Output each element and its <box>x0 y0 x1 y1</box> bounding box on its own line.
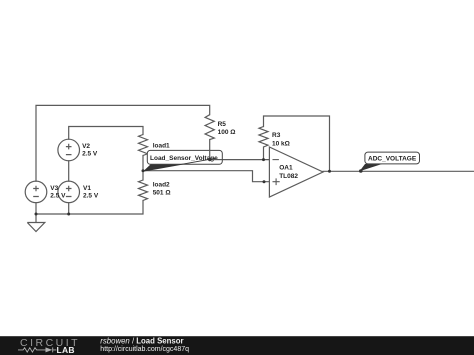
resistor R5 <box>205 115 214 140</box>
wire node to op-amp non-inverting input <box>143 171 280 182</box>
resistor load2 <box>139 180 148 201</box>
wire top rail from V3 top to R5 top <box>36 105 210 181</box>
wire load1 bottom to node <box>142 156 144 171</box>
wire R3 feedback loop to output <box>264 116 330 171</box>
voltage source V1 <box>58 181 80 203</box>
svg-text:R5: R5 <box>218 121 227 128</box>
svg-text:rsbowen / Load Sensor: rsbowen / Load Sensor <box>100 336 183 345</box>
svg-text:http://circuitlab.com/cgc487q: http://circuitlab.com/cgc487q <box>100 346 189 353</box>
svg-text:V1: V1 <box>83 185 91 192</box>
junction dot non-inverting input <box>263 180 266 183</box>
label V1 <box>83 185 99 199</box>
junction dot V3 bottom <box>35 213 38 216</box>
junction dot R3 bottom at inverting input <box>262 158 265 161</box>
label load1 <box>153 143 170 150</box>
node flag ADC_VOLTAGE <box>359 152 420 173</box>
wire V1 bottom to ground rail <box>68 203 70 214</box>
svg-text:LAB: LAB <box>57 345 75 355</box>
wire op-amp output to right edge <box>323 170 474 172</box>
junction dot output feedback <box>328 170 331 173</box>
svg-text:10 kΩ: 10 kΩ <box>272 141 290 148</box>
label R3 <box>272 132 290 148</box>
svg-text:V3: V3 <box>50 185 58 192</box>
label R5 <box>218 121 236 136</box>
voltage source V3 <box>25 181 47 203</box>
label OA1 TL082 <box>279 165 298 181</box>
svg-text:100 Ω: 100 Ω <box>218 129 236 136</box>
op-amp OA1 <box>269 147 323 197</box>
wire V2 top to load1 top <box>69 127 143 140</box>
svg-text:2.5 V: 2.5 V <box>83 192 99 199</box>
resistor R3 <box>259 127 268 148</box>
footer bar <box>0 336 474 355</box>
svg-text:2.5 V: 2.5 V <box>50 192 66 199</box>
wire V2 bottom to V1 top <box>68 161 70 181</box>
voltage source V2 <box>58 139 80 161</box>
wire R5 bottom to op-amp inverting input <box>210 140 279 160</box>
junction dot node Load_Sensor_Voltage <box>142 169 145 172</box>
label load2 <box>153 182 171 197</box>
svg-text:501 Ω: 501 Ω <box>153 190 171 197</box>
node flag Load_Sensor_Voltage <box>143 150 222 171</box>
label V2 <box>82 143 98 157</box>
label V3 <box>50 185 66 199</box>
svg-text:load2: load2 <box>153 182 170 189</box>
ground <box>27 214 45 232</box>
svg-text:2.5 V: 2.5 V <box>82 150 98 157</box>
junction dot V1 bottom <box>67 213 70 216</box>
svg-text:V2: V2 <box>82 143 90 150</box>
svg-text:Load_Sensor_Voltage: Load_Sensor_Voltage <box>150 155 218 162</box>
resistor load1 <box>139 135 148 156</box>
wire bottom rail to load2 bottom <box>36 201 143 215</box>
junction dot R5 bottom <box>208 158 211 161</box>
svg-text:R3: R3 <box>272 132 281 139</box>
wire node to load2 top <box>142 171 144 180</box>
svg-text:ADC_VOLTAGE: ADC_VOLTAGE <box>368 156 417 163</box>
svg-text:TL082: TL082 <box>279 173 298 180</box>
wire R3 bottom to inverting input <box>263 147 265 160</box>
wire V3 bottom to ground rail <box>35 203 37 214</box>
svg-text:OA1: OA1 <box>279 165 293 172</box>
svg-text:load1: load1 <box>153 143 170 150</box>
CircuitLab logo resistor squiggle and diode <box>18 347 56 352</box>
